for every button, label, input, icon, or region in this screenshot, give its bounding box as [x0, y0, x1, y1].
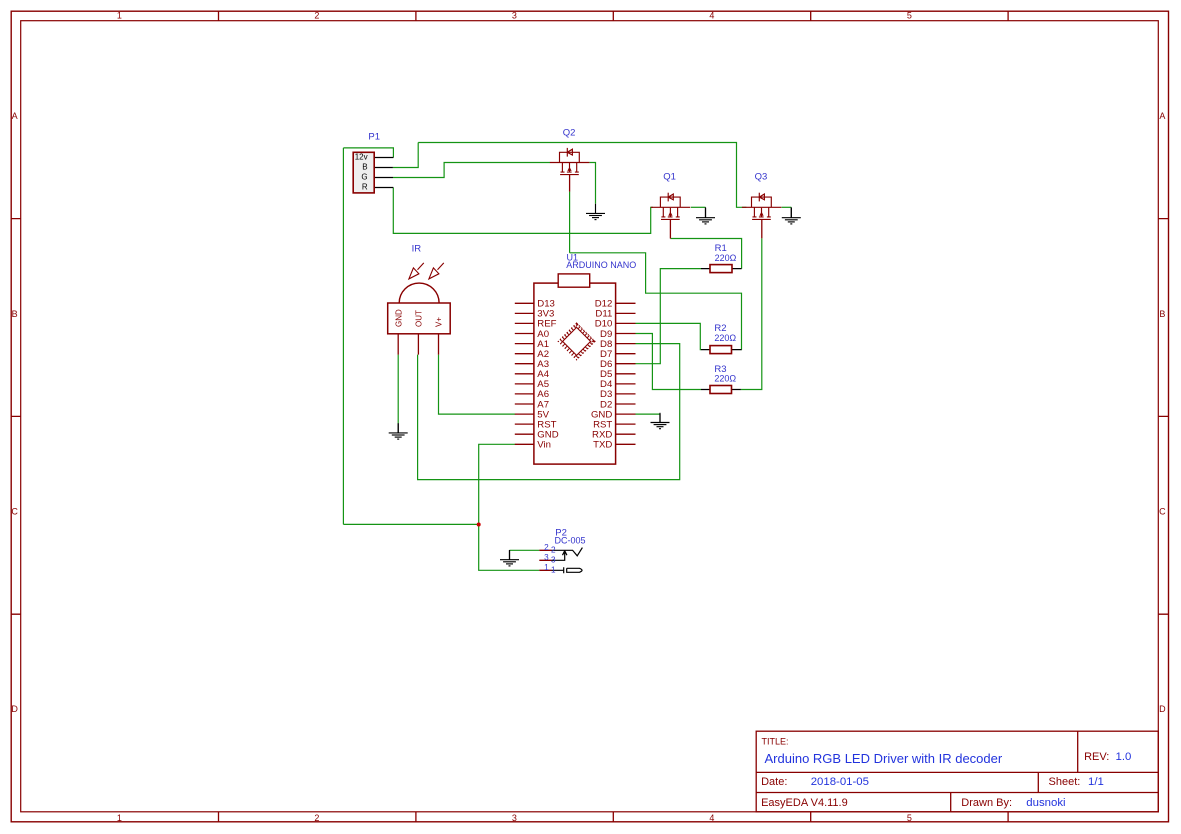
ground at U1 GND — [651, 413, 670, 429]
wire U1 D9 to R3 left — [636, 334, 702, 390]
wire Q1 source to ground — [691, 206, 706, 208]
svg-text:2018-01-05: 2018-01-05 — [811, 776, 869, 788]
wire net G: P1 pin3 to Q2 drain — [393, 163, 550, 178]
title block — [756, 731, 1158, 812]
svg-text:TXD: TXD — [593, 440, 612, 451]
connector P2 DC-005 — [539, 527, 585, 574]
svg-text:A: A — [12, 111, 18, 121]
svg-text:REV:: REV: — [1084, 751, 1109, 763]
svg-text:220Ω: 220Ω — [714, 374, 736, 384]
svg-text:C: C — [11, 507, 18, 517]
svg-text:1/1: 1/1 — [1088, 776, 1104, 788]
svg-text:B: B — [362, 163, 367, 172]
wire Q2 gate to R2 right — [570, 253, 742, 350]
svg-text:220Ω: 220Ω — [715, 253, 737, 263]
svg-text:Sheet:: Sheet: — [1049, 776, 1081, 788]
wire P2 pin2 to ground — [510, 549, 540, 551]
svg-text:TITLE:: TITLE: — [762, 737, 789, 747]
wire net 12V: left rail down — [342, 148, 344, 525]
connector P1 — [353, 132, 393, 193]
svg-text:3: 3 — [544, 553, 549, 562]
svg-text:220Ω: 220Ω — [714, 333, 736, 343]
ground at Q1 — [696, 207, 715, 224]
transistor Q3 — [742, 172, 782, 239]
svg-text:1: 1 — [551, 565, 556, 574]
svg-text:EasyEDA V4.11.9: EasyEDA V4.11.9 — [761, 797, 848, 809]
svg-text:D: D — [1159, 704, 1166, 714]
svg-text:Q1: Q1 — [663, 172, 676, 183]
svg-text:5: 5 — [907, 10, 912, 20]
svg-text:3: 3 — [551, 555, 556, 564]
wire Q3 gate down to R3 right — [741, 238, 762, 389]
svg-text:GND: GND — [394, 309, 403, 327]
svg-text:ARDUINO NANO: ARDUINO NANO — [566, 260, 636, 270]
svg-text:5: 5 — [907, 813, 912, 823]
node junction 12V — [477, 523, 481, 527]
ground at Q2 — [586, 204, 605, 220]
svg-text:1: 1 — [117, 813, 122, 823]
svg-text:B: B — [1159, 309, 1165, 319]
svg-text:Arduino RGB LED Driver with IR: Arduino RGB LED Driver with IR decoder — [765, 751, 1003, 766]
ground at IR — [389, 423, 408, 439]
svg-text:2: 2 — [314, 10, 319, 20]
wire Q2 gate down — [569, 192, 571, 253]
svg-text:R: R — [362, 182, 368, 191]
ground at Q3 — [782, 207, 801, 224]
svg-text:2: 2 — [314, 813, 319, 823]
svg-text:4: 4 — [709, 10, 714, 20]
svg-text:G: G — [361, 172, 367, 181]
svg-text:V+: V+ — [435, 317, 444, 327]
wire Q3 source to ground — [782, 206, 792, 208]
svg-text:C: C — [1159, 507, 1166, 517]
svg-text:IR: IR — [412, 243, 422, 254]
svg-text:dusnoki: dusnoki — [1026, 797, 1065, 809]
svg-text:Date:: Date: — [761, 776, 787, 788]
svg-text:OUT: OUT — [415, 310, 424, 327]
svg-text:Q3: Q3 — [755, 172, 768, 183]
svg-text:Drawn By:: Drawn By: — [961, 797, 1012, 809]
svg-text:4: 4 — [709, 813, 714, 823]
svg-text:Vin: Vin — [537, 440, 551, 451]
transistor Q1 — [651, 172, 691, 239]
resistor R3 — [701, 364, 741, 393]
svg-text:DC-005: DC-005 — [555, 536, 586, 546]
wire U1 D6 to R1 left — [636, 269, 702, 364]
svg-text:B: B — [12, 309, 18, 319]
svg-text:3: 3 — [512, 813, 517, 823]
resistor R1 — [701, 243, 742, 272]
wire net 12V: bottom run to junction — [343, 523, 478, 525]
wire Q2 source to ground — [589, 163, 595, 204]
svg-text:1: 1 — [544, 563, 549, 572]
transistor Q2 — [550, 127, 590, 191]
svg-text:2: 2 — [551, 545, 556, 554]
svg-text:2: 2 — [544, 543, 549, 552]
sensor IR receiver — [388, 243, 451, 354]
wire IR V+ to U1 5V — [439, 355, 516, 415]
svg-text:3: 3 — [512, 10, 517, 20]
wire net B: top rail to Q3 drain — [418, 143, 746, 208]
wire net R: P1 pin4 down and across — [393, 188, 653, 234]
op-amp U1 ARDUINO NANO — [515, 252, 637, 464]
wire Q1 gate to R1 right — [670, 239, 741, 269]
wire U1 D10 to R2 left — [636, 323, 702, 349]
resistor R2 — [701, 323, 742, 354]
svg-text:1: 1 — [117, 10, 122, 20]
wire IR GND down — [397, 355, 399, 424]
wire net 12V: junction down to P2 pin1 — [479, 524, 540, 570]
svg-text:P1: P1 — [368, 132, 380, 143]
wire net 12V: P1 pin1 riser — [343, 148, 393, 158]
wire U1 GND to ground — [636, 413, 661, 415]
svg-text:A: A — [1159, 111, 1165, 121]
wire net 12V: junction up to U1 Vin — [479, 444, 516, 524]
svg-text:Q2: Q2 — [563, 127, 576, 138]
svg-text:D: D — [11, 704, 18, 714]
svg-text:1.0: 1.0 — [1116, 751, 1132, 763]
wire net B: P1 pin2 to top rail — [393, 143, 418, 168]
ground at P2 — [500, 550, 519, 566]
svg-text:12v: 12v — [355, 152, 368, 161]
wire U1 D8 to IR OUT — [418, 344, 680, 480]
